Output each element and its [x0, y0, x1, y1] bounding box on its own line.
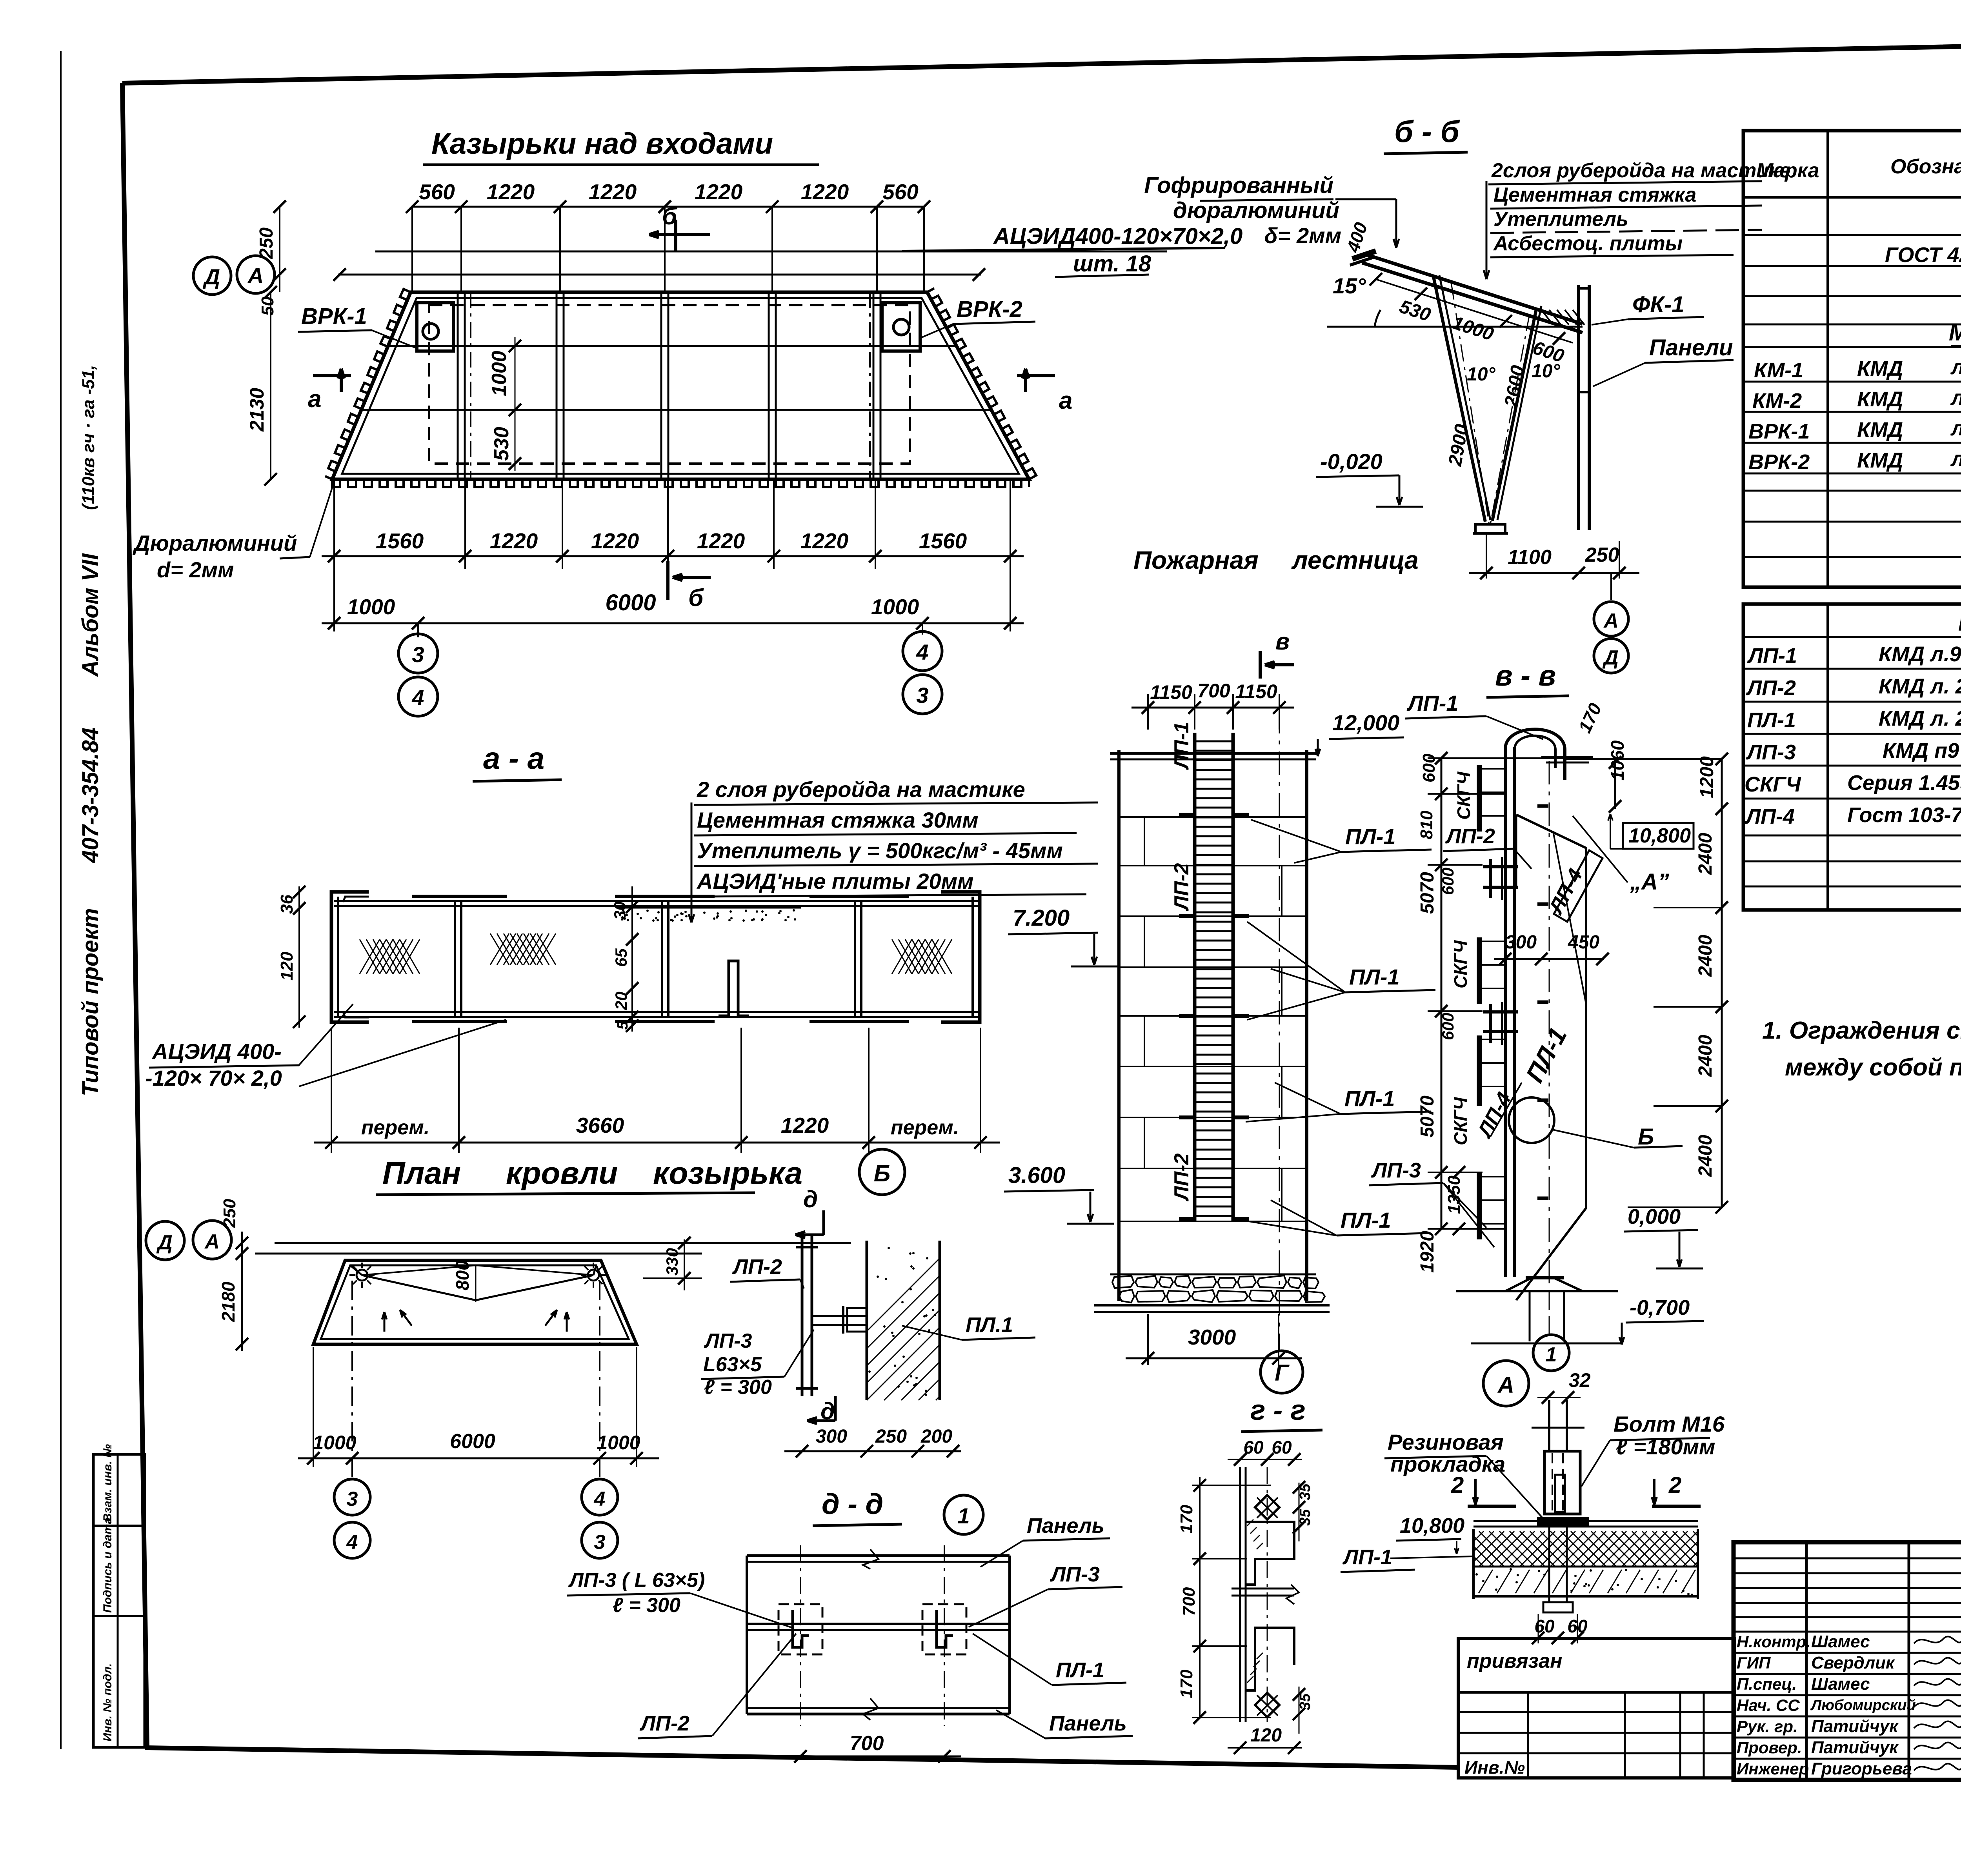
- svg-text:б: б: [688, 584, 704, 611]
- axis circle D: [193, 257, 231, 295]
- svg-text:Д: Д: [1602, 646, 1619, 669]
- roof drainage funnels: [357, 1270, 367, 1281]
- svg-text:200: 200: [920, 1426, 952, 1447]
- svg-text:300: 300: [816, 1426, 847, 1447]
- specification table part 2 grid: [1743, 604, 1961, 910]
- a-a insulation hatch right: [892, 939, 912, 974]
- foundation pedestal vv: [1529, 1291, 1531, 1341]
- svg-text:в: в: [1275, 628, 1290, 655]
- svg-text:1920: 1920: [1417, 1231, 1438, 1273]
- svg-text:д: д: [803, 1186, 818, 1212]
- svg-text:АЦЭИД 400-: АЦЭИД 400-: [151, 1039, 282, 1064]
- svg-text:(110кв гч · га -51,: (110кв гч · га -51,: [79, 365, 98, 510]
- svg-text:250: 250: [220, 1199, 239, 1228]
- svg-text:ЛП-1: ЛП-1: [1170, 722, 1193, 770]
- svg-text:перем.: перем.: [361, 1116, 429, 1139]
- vv left dimension line: [1441, 758, 1443, 1229]
- svg-text:Цементная стяжка 30мм: Цементная стяжка 30мм: [697, 808, 979, 832]
- canopy beam b-b: [1365, 254, 1583, 324]
- plan top dimension line 560/1220: [412, 206, 924, 208]
- centerline axis 1 vv: [1549, 761, 1550, 1290]
- svg-text:1220: 1220: [697, 529, 745, 553]
- svg-text:Типовой проект: Типовой проект: [78, 908, 103, 1096]
- svg-text:2: 2: [1668, 1472, 1681, 1498]
- svg-text:ГИП: ГИП: [1737, 1654, 1771, 1672]
- svg-text:Гофрированный: Гофрированный: [1144, 173, 1333, 198]
- svg-text:d= 2мм: d= 2мм: [157, 557, 234, 582]
- svg-text:ЛП-3: ЛП-3: [1050, 1563, 1100, 1586]
- svg-text:Пожарная: Пожарная: [1133, 546, 1259, 574]
- svg-text:Н.контр.: Н.контр.: [1737, 1632, 1811, 1651]
- dim 250 vertical: [279, 207, 280, 292]
- outer margin thin line left: [60, 51, 62, 1749]
- svg-text:ЛП-2: ЛП-2: [1445, 824, 1495, 848]
- svg-text:1220: 1220: [490, 529, 538, 553]
- svg-text:шт. 18: шт. 18: [1073, 251, 1151, 277]
- svg-text:1000: 1000: [597, 1432, 640, 1454]
- svg-text:15°: 15°: [1333, 273, 1366, 298]
- svg-text:А: А: [247, 263, 264, 288]
- plan interior vertical members: [457, 292, 459, 479]
- svg-text:2400: 2400: [1695, 1135, 1716, 1177]
- callout leader arrow b-b: [1486, 181, 1488, 271]
- svg-text:1220: 1220: [487, 180, 535, 204]
- svg-text:560: 560: [882, 180, 919, 204]
- svg-text:1200: 1200: [1697, 756, 1717, 798]
- svg-text:1560: 1560: [376, 529, 424, 553]
- svg-text:1: 1: [957, 1503, 970, 1528]
- wall panel parallelogram vv: [1516, 815, 1586, 1300]
- canopy tip cap: [1352, 251, 1376, 259]
- svg-text:1000: 1000: [488, 351, 511, 396]
- svg-text:0,000: 0,000: [1628, 1205, 1681, 1228]
- svg-text:250: 250: [256, 227, 277, 259]
- vv right dimension line: [1721, 759, 1723, 1207]
- a-a screed dotted band: [619, 905, 801, 909]
- wall parapet top lines: [1110, 752, 1316, 755]
- svg-text:1220: 1220: [800, 529, 849, 553]
- detail circle B label top: [859, 1149, 905, 1195]
- svg-text:δ= 2мм: δ= 2мм: [1264, 223, 1341, 248]
- roof slope arrows: [400, 1310, 412, 1326]
- a-a T profile joint: [719, 961, 749, 1016]
- svg-text:ЛП-3 ( L 63×5): ЛП-3 ( L 63×5): [568, 1569, 705, 1592]
- gg top bolt diamond: [1255, 1495, 1279, 1519]
- title block signatures: [1914, 1636, 1961, 1643]
- roof-wall joint hatch: [1541, 310, 1553, 325]
- svg-text:250: 250: [875, 1426, 907, 1447]
- detail circle B vv: [1509, 1097, 1554, 1143]
- detail A channel head: [1544, 1451, 1580, 1514]
- roof axis circles 3/4: [334, 1479, 370, 1515]
- section marker a right: [1017, 374, 1055, 377]
- plan interior horizontal lines: [386, 345, 957, 347]
- svg-text:5: 5: [615, 1021, 631, 1030]
- svg-text:170: 170: [1177, 1505, 1196, 1534]
- svg-text:36: 36: [277, 895, 297, 914]
- axis circle 1 detail A: [1533, 1335, 1569, 1371]
- a-a bottom dimension line: [314, 1142, 1000, 1144]
- svg-text:СКГЧ: СКГЧ: [1453, 771, 1474, 820]
- svg-text:Гост 103-76: Гост 103-76: [1847, 803, 1961, 827]
- plan axes dimension line 1000/6000/1000: [322, 622, 1024, 624]
- svg-text:ВРК-1: ВРК-1: [1748, 420, 1810, 443]
- svg-text:Шамес: Шамес: [1811, 1632, 1870, 1651]
- a-a right I-beam: [810, 895, 909, 898]
- svg-text:1100: 1100: [1508, 546, 1552, 569]
- detail A bolt shank: [1548, 1400, 1550, 1451]
- svg-text:ПЛ.1: ПЛ.1: [966, 1313, 1013, 1337]
- svg-text:Инв. № подл.: Инв. № подл.: [101, 1663, 114, 1741]
- svg-text:Болт М16: Болт М16: [1614, 1412, 1725, 1436]
- svg-text:АЦЭИД'ные плиты 20мм: АЦЭИД'ные плиты 20мм: [696, 869, 973, 893]
- ladder top hook: [1505, 729, 1565, 780]
- svg-text:ПЛ-1: ПЛ-1: [1345, 824, 1396, 849]
- boxed level 10.800 vv: [1623, 823, 1694, 849]
- svg-text:ФК-1: ФК-1: [1632, 292, 1684, 317]
- svg-text:2слоя руберойда на мастике: 2слоя руберойда на мастике: [1491, 159, 1791, 182]
- svg-text:Казырьки над входами: Казырьки над входами: [431, 127, 773, 160]
- svg-text:2 слоя руберойда на мастике: 2 слоя руберойда на мастике: [697, 777, 1025, 802]
- a-a deck horizontal lines: [334, 900, 978, 902]
- axis circle A: [237, 256, 275, 293]
- svg-text:32: 32: [1569, 1369, 1591, 1391]
- dd middle connection bar: [747, 1623, 1010, 1625]
- svg-text:2: 2: [1451, 1472, 1464, 1498]
- svg-text:450: 450: [1568, 932, 1599, 953]
- LP-2 bracket detail vv lower: [1489, 1004, 1492, 1043]
- svg-text:Пажарная лестница: Пажарная лестница: [1958, 610, 1961, 636]
- specification table grid: [1743, 131, 1961, 587]
- svg-text:ЛП-3: ЛП-3: [1371, 1159, 1421, 1182]
- drain funnel box VRK-1: [417, 303, 453, 351]
- svg-text:КМД: КМД: [1857, 388, 1903, 411]
- svg-text:Резиновая: Резиновая: [1388, 1430, 1504, 1454]
- svg-text:5070: 5070: [1417, 1095, 1438, 1137]
- svg-text:600: 600: [1439, 868, 1457, 895]
- svg-text:Цементная стяжка: Цементная стяжка: [1493, 184, 1696, 206]
- svg-text:ЛП-2: ЛП-2: [1170, 1154, 1193, 1202]
- svg-text:ЛП-2: ЛП-2: [732, 1255, 782, 1279]
- svg-text:привязан: привязан: [1467, 1650, 1563, 1672]
- svg-text:СКГЧ: СКГЧ: [1450, 1097, 1471, 1145]
- brick verticals: [1144, 817, 1145, 866]
- svg-text:Любомирский: Любомирский: [1810, 1697, 1916, 1714]
- svg-text:Панели: Панели: [1649, 335, 1733, 360]
- svg-text:ЛП-1: ЛП-1: [1406, 691, 1459, 715]
- left margin bottom stamp boxes: [93, 1454, 145, 1747]
- svg-text:СКГЧ: СКГЧ: [1450, 940, 1471, 988]
- detail B bottom dims 300/250/200: [784, 1450, 961, 1452]
- ladder wall outline: [1117, 750, 1121, 1301]
- svg-text:10,800: 10,800: [1400, 1514, 1464, 1538]
- title block signature row lines: [1734, 1631, 1961, 1633]
- detail A slab top: [1473, 1520, 1698, 1522]
- svg-text:„А”: „А”: [1630, 869, 1669, 895]
- svg-text:л. 26: л. 26: [1950, 386, 1961, 409]
- svg-text:700: 700: [850, 1732, 884, 1755]
- roof axis leader lines: [351, 1281, 353, 1479]
- LP-2 bracket detail vv upper: [1489, 859, 1492, 898]
- ladder stringers front: [1193, 733, 1197, 1221]
- svg-text:ВРК-2: ВРК-2: [957, 297, 1022, 322]
- parapet cap vv: [1541, 756, 1593, 759]
- svg-text:Б: Б: [1638, 1124, 1654, 1150]
- ladder base foot vv: [1526, 1276, 1564, 1279]
- detail A rubber pad black: [1537, 1517, 1589, 1526]
- svg-text:б: б: [662, 203, 678, 230]
- svg-text:ЛП-2: ЛП-2: [639, 1712, 689, 1735]
- svg-text:л. 26: л. 26: [1950, 417, 1961, 440]
- brick wall courses: [1119, 816, 1307, 818]
- svg-text:ЛП-1: ЛП-1: [1342, 1545, 1392, 1569]
- svg-text:л. 26: л. 26: [1950, 355, 1961, 379]
- svg-text:ПЛ-1: ПЛ-1: [1747, 708, 1796, 732]
- svg-text:Инв.№: Инв.№: [1464, 1757, 1525, 1778]
- svg-text:ЛП-3: ЛП-3: [1746, 741, 1796, 764]
- svg-text:65: 65: [612, 948, 630, 967]
- svg-text:560: 560: [419, 180, 455, 204]
- svg-text:в - в: в - в: [1495, 659, 1556, 692]
- svg-text:2400: 2400: [1695, 1035, 1716, 1077]
- svg-text:прокладка: прокладка: [1390, 1452, 1505, 1476]
- SKGCh cage hoops: [1479, 768, 1505, 770]
- svg-text:3660: 3660: [576, 1113, 624, 1137]
- svg-text:120: 120: [277, 952, 297, 981]
- svg-text:10°: 10°: [1467, 364, 1495, 385]
- svg-text:Григорьева: Григорьева: [1811, 1759, 1912, 1778]
- svg-text:3: 3: [594, 1531, 606, 1554]
- a-a insulation hatch left: [360, 939, 380, 974]
- beam dimension 530-1000-600: [1376, 279, 1573, 343]
- svg-text:-0,700: -0,700: [1630, 1296, 1690, 1319]
- svg-text:ВРК-1: ВРК-1: [301, 304, 367, 329]
- svg-text:600: 600: [1419, 753, 1439, 782]
- svg-text:1. Ограждения стремянок СКГЧ: 1. Ограждения стремянок СКГЧ сварить на …: [1762, 1017, 1961, 1044]
- roof fold lines: [350, 1265, 362, 1275]
- svg-text:-120× 70× 2,0: -120× 70× 2,0: [145, 1066, 282, 1090]
- detail A screed band: [1479, 1570, 1493, 1593]
- callout leader a-a: [691, 802, 693, 914]
- svg-text:ВРК-2: ВРК-2: [1748, 450, 1810, 474]
- title block thin top rows: [1734, 1558, 1961, 1559]
- detail B wall concrete: [866, 1241, 868, 1400]
- dd panel strip: [747, 1554, 1010, 1557]
- svg-text:ЛП-4: ЛП-4: [1745, 805, 1795, 828]
- drain funnel box VRK-2: [882, 303, 920, 351]
- svg-text:КМД: КМД: [1857, 357, 1903, 380]
- roof bottom dims 1000/6000/1000: [298, 1457, 659, 1459]
- section marker b top: [674, 220, 677, 251]
- svg-text:План: План: [382, 1155, 461, 1190]
- gg middle bar: [1232, 1588, 1294, 1590]
- svg-text:1150: 1150: [1235, 681, 1277, 702]
- svg-text:б - б: б - б: [1394, 114, 1460, 149]
- svg-text:ГОСТ 4248 -78: ГОСТ 4248 -78: [1885, 243, 1961, 267]
- detail B bolt connection: [812, 1315, 867, 1317]
- svg-text:20: 20: [612, 992, 630, 1010]
- svg-text:Патийчук: Патийчук: [1811, 1738, 1899, 1757]
- svg-text:Нач. СС: Нач. СС: [1737, 1696, 1800, 1714]
- svg-text:Утеплитель γ = 500кгс/м³: Утеплитель γ = 500кгс/м³ - 45мм: [697, 838, 1063, 863]
- svg-text:Альбом VII: Альбом VII: [78, 553, 103, 677]
- ladder top dimension 1150/700/1150: [1131, 707, 1294, 709]
- roof dims left 250 2180: [241, 1232, 243, 1351]
- svg-text:ℓ = 300: ℓ = 300: [613, 1594, 680, 1617]
- svg-text:СКГЧ: СКГЧ: [1745, 773, 1801, 796]
- svg-text:700: 700: [1197, 680, 1230, 702]
- roof plan trapezoid: [313, 1260, 637, 1344]
- svg-text:перем.: перем.: [891, 1116, 959, 1139]
- svg-text:35: 35: [1297, 1483, 1313, 1500]
- svg-text:л. 26: л. 26: [1950, 447, 1961, 471]
- svg-text:407-3-354.84: 407-3-354.84: [78, 728, 103, 863]
- svg-text:а: а: [1059, 387, 1072, 414]
- svg-text:Металлоконструкции: Металлоконструкции: [1949, 319, 1961, 346]
- svg-text:3: 3: [412, 642, 424, 667]
- b-b bottom dimension 1100/250: [1486, 533, 1487, 579]
- svg-text:кровли: кровли: [506, 1155, 618, 1190]
- level line 12.0 right: [1565, 758, 1722, 760]
- svg-text:а - а: а - а: [483, 741, 544, 775]
- svg-text:ПЛ-1: ПЛ-1: [1349, 964, 1400, 989]
- svg-text:АЦЭИД400-120×70×2,0: АЦЭИД400-120×70×2,0: [993, 224, 1242, 249]
- svg-text:Патийчук: Патийчук: [1811, 1717, 1899, 1736]
- wall panel column b-b: [1577, 285, 1580, 530]
- svg-text:Серия 1.459-2 в.4: Серия 1.459-2 в.4: [1847, 771, 1961, 795]
- detail A insulation crosshatch: [1472, 1529, 1475, 1599]
- canopy plan inner dashed contour: [429, 305, 910, 464]
- wall line: [375, 251, 1167, 253]
- strut KM-2 V shape: [1433, 277, 1485, 522]
- dim 2130 vertical left: [270, 292, 271, 479]
- svg-text:10°: 10°: [1532, 361, 1560, 382]
- svg-text:1: 1: [1546, 1343, 1557, 1366]
- svg-text:1560: 1560: [919, 529, 967, 553]
- a-a I-beam 2: [615, 895, 715, 898]
- svg-text:3.600: 3.600: [1008, 1163, 1065, 1188]
- detail A bolt through slab: [1548, 1527, 1550, 1602]
- svg-text:ЛП-3: ЛП-3: [704, 1330, 752, 1352]
- axis D-A dimension line: [338, 274, 981, 276]
- dd break marks: [863, 1549, 879, 1569]
- gg upper Z profile: [1246, 1522, 1294, 1585]
- axis 1 leader to circle: [1549, 1290, 1550, 1334]
- svg-text:козырька: козырька: [653, 1155, 802, 1190]
- dim 1000 and 530 interior: [515, 337, 516, 471]
- svg-text:60: 60: [1272, 1437, 1292, 1457]
- svg-text:Асбестоц. плиты: Асбестоц. плиты: [1493, 232, 1683, 255]
- a-a dims middle 30/65/20/5: [631, 886, 633, 1032]
- svg-text:КМД л. 27: КМД л. 27: [1879, 675, 1961, 698]
- svg-text:1000: 1000: [347, 595, 395, 619]
- svg-text:1220: 1220: [695, 180, 743, 204]
- svg-text:КМ-2: КМ-2: [1752, 389, 1802, 413]
- svg-text:КМД п9: КМД п9: [1883, 739, 1959, 762]
- svg-text:2400: 2400: [1695, 935, 1716, 977]
- baseline 15 deg: [1327, 326, 1583, 328]
- svg-text:600: 600: [1439, 1013, 1457, 1040]
- svg-text:Панель: Панель: [1027, 1514, 1104, 1538]
- svg-text:7.200: 7.200: [1013, 905, 1070, 931]
- canopy plan trapezoid outline: [332, 292, 1029, 479]
- a-a left C-channel: [331, 892, 369, 1022]
- level stub lines right vv: [1654, 907, 1722, 908]
- SKGCh cage bars: [1477, 765, 1482, 832]
- gg 35 dims right: [1299, 1483, 1300, 1541]
- svg-text:КМД: КМД: [1857, 418, 1903, 442]
- svg-text:1000: 1000: [313, 1432, 356, 1454]
- svg-text:Д: Д: [156, 1231, 173, 1254]
- privyazan box: [1458, 1638, 1734, 1778]
- roof dim right 330: [684, 1239, 685, 1290]
- plan axis circles 3 and 4: [417, 623, 419, 637]
- svg-text:А: А: [1603, 610, 1619, 632]
- svg-text:Г: Г: [1275, 1360, 1290, 1386]
- svg-text:12,000: 12,000: [1332, 710, 1399, 735]
- canopy serrated duralumin edge: [325, 289, 411, 479]
- svg-text:ПЛ-1: ПЛ-1: [1056, 1658, 1104, 1682]
- svg-text:лестница: лестница: [1291, 546, 1419, 574]
- svg-text:10,800: 10,800: [1628, 824, 1691, 847]
- ladder foundation rubble: [1110, 1274, 1316, 1276]
- svg-text:1150: 1150: [1150, 681, 1192, 703]
- svg-text:4: 4: [346, 1531, 358, 1554]
- svg-text:810: 810: [1417, 810, 1436, 839]
- title block column lines: [1805, 1542, 1808, 1780]
- svg-text:700: 700: [1179, 1587, 1199, 1616]
- svg-text:ПЛ-1: ПЛ-1: [1341, 1208, 1391, 1232]
- svg-text:5070: 5070: [1417, 872, 1438, 914]
- ladder rungs: [1196, 741, 1232, 742]
- svg-text:-0,020: -0,020: [1320, 449, 1383, 474]
- svg-text:6000: 6000: [605, 590, 656, 615]
- svg-text:Рук. гр.: Рук. гр.: [1737, 1717, 1798, 1736]
- svg-text:300: 300: [1505, 932, 1537, 953]
- title block outer frame: [1734, 1542, 1961, 1780]
- svg-text:КМД л.9: КМД л.9: [1879, 642, 1961, 666]
- svg-text:1000: 1000: [871, 595, 919, 619]
- svg-text:4: 4: [411, 685, 424, 710]
- svg-text:30: 30: [611, 901, 629, 920]
- rung stubs vv: [1537, 804, 1548, 808]
- gg left dimension line: [1199, 1477, 1201, 1718]
- svg-text:530: 530: [490, 427, 513, 461]
- svg-text:Инженер: Инженер: [1737, 1760, 1809, 1778]
- svg-text:Марка: Марка: [1756, 159, 1819, 182]
- svg-text:А: А: [204, 1230, 220, 1253]
- svg-text:1220: 1220: [591, 529, 639, 553]
- a-a dims left 36/120: [298, 886, 300, 1028]
- svg-text:Д: Д: [203, 264, 220, 289]
- section marker b bottom: [666, 561, 669, 600]
- svg-text:Шамес: Шамес: [1811, 1674, 1870, 1694]
- svg-text:1220: 1220: [801, 180, 849, 204]
- a-a right C-channel: [941, 892, 980, 1022]
- svg-text:П.спец.: П.спец.: [1737, 1675, 1797, 1693]
- section marker a left: [313, 374, 351, 377]
- detail B channel LP-2: [801, 1236, 804, 1396]
- svg-text:ЛП-2: ЛП-2: [1746, 676, 1796, 700]
- svg-text:35: 35: [1297, 1509, 1313, 1526]
- svg-text:1220: 1220: [589, 180, 637, 204]
- detail circle A: [1483, 1361, 1529, 1406]
- svg-text:Б: Б: [874, 1160, 890, 1186]
- svg-text:д - д: д - д: [822, 1488, 883, 1520]
- svg-text:120: 120: [1250, 1725, 1282, 1746]
- roof plan top lines: [275, 1242, 851, 1244]
- gg lower bolt diamond: [1255, 1693, 1279, 1717]
